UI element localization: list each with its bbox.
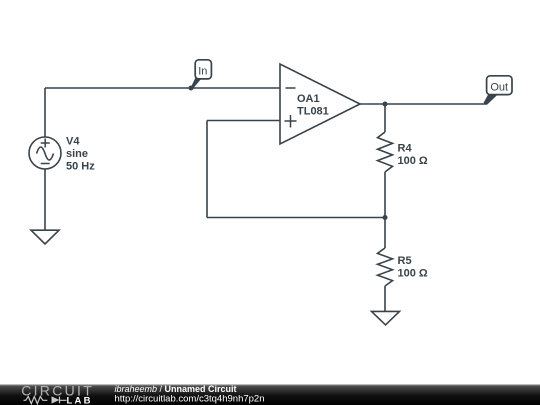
flag Out box: [487, 76, 512, 95]
svg-text:In: In: [198, 65, 207, 77]
wire op-amp plus input: [207, 120, 280, 122]
wire R5 top stub: [384, 218, 386, 249]
junction node at In flag: [189, 86, 194, 91]
svg-text:R5: R5: [398, 255, 412, 267]
svg-text:sine: sine: [66, 148, 88, 160]
wire R5 bottom stub: [384, 286, 386, 311]
logo resistor zigzag: [24, 397, 48, 404]
resistor R5 zigzag: [378, 248, 393, 286]
svg-text:R4: R4: [398, 143, 413, 155]
flag In box: [195, 60, 211, 79]
wire top net In: source to op-amp minus input: [45, 87, 280, 89]
V4 plus sign: [41, 139, 50, 148]
svg-text:TL081: TL081: [297, 105, 329, 117]
junction node feedback/R4/R5: [383, 215, 388, 220]
svg-text:OA1: OA1: [297, 93, 320, 105]
wire op-amp output: [360, 103, 483, 105]
wire R4 top stub: [384, 104, 386, 132]
ground left: [31, 230, 59, 244]
V4 minus sign: [41, 163, 50, 165]
resistor R4 zigzag: [378, 132, 393, 172]
footer bar: [0, 384, 540, 405]
wire feedback vertical: [206, 121, 208, 218]
svg-text:100 Ω: 100 Ω: [398, 155, 428, 167]
logo diode: [52, 396, 60, 403]
wire source top stub: [44, 88, 46, 137]
svg-text:Out: Out: [490, 81, 508, 93]
ground right: [372, 311, 400, 325]
wire source bottom stub: [44, 169, 46, 230]
op-amp OA1 triangle: [280, 64, 360, 144]
wire R4 bottom stub: [384, 172, 386, 218]
op-amp minus input symbol: [286, 87, 296, 89]
voltage source V4 circle: [29, 137, 61, 169]
svg-text:V4: V4: [66, 136, 80, 148]
svg-text:ibraheemb / Unnamed Circuit: ibraheemb / Unnamed Circuit: [115, 384, 237, 394]
svg-text:http://circuitlab.com/c3tq4h9n: http://circuitlab.com/c3tq4h9nh7p2n: [115, 394, 265, 405]
flag Out tail: [483, 95, 498, 105]
V4 sine wave: [37, 147, 54, 160]
op-amp plus input symbol: [285, 115, 297, 128]
junction node output: [383, 102, 388, 107]
svg-text:50 Hz: 50 Hz: [66, 161, 95, 173]
svg-text:LAB: LAB: [67, 395, 93, 405]
wire feedback horizontal: [207, 217, 385, 219]
svg-text:100 Ω: 100 Ω: [398, 267, 428, 279]
flag In tail: [190, 78, 202, 90]
